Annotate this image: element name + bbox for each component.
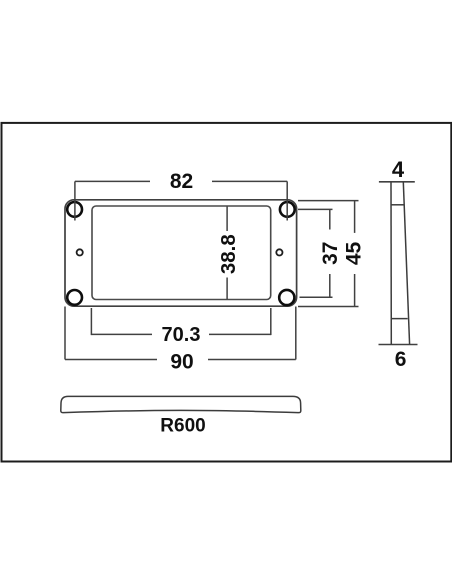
dimension 70.3: extension line right	[270, 308, 272, 335]
svg-text:70.3: 70.3	[162, 324, 201, 346]
dimension 82: extension line right	[286, 181, 288, 220]
screw hole top-left	[67, 202, 82, 217]
side view: bottom dimension line	[379, 344, 418, 346]
dimension 37: dim line bottom segment	[329, 274, 331, 297]
small pickup adjust hole left	[77, 249, 83, 255]
screw hole top-right	[280, 202, 295, 217]
dimension 37: dim line top segment	[329, 209, 331, 229]
svg-text:R600: R600	[160, 416, 205, 437]
dimension 38.8: dim line top segment	[226, 207, 228, 232]
dimension 45: dim line bottom segment	[354, 274, 356, 307]
dimension 82: dim line right segment	[212, 180, 287, 182]
inner opening rectangle	[92, 206, 271, 300]
svg-text:90: 90	[170, 350, 193, 373]
outer ring rounded rectangle	[65, 200, 297, 306]
dimension 90: extension line left	[64, 307, 66, 360]
dimension 90: dim line right segment	[208, 359, 296, 361]
dimension 90: extension line right	[295, 307, 297, 360]
dimension 38.8: dim line bottom segment	[226, 278, 228, 300]
dimension 70.3: extension line left	[90, 308, 92, 335]
dimension 70.3: dim line left segment	[91, 333, 152, 335]
svg-text:4: 4	[392, 157, 405, 182]
dimension 82: extension line left	[74, 181, 76, 220]
drawing frame border	[2, 123, 452, 462]
dimension 45: dim line top segment	[354, 201, 356, 233]
dimension 45: extension line bottom	[298, 306, 359, 308]
svg-text:45: 45	[343, 242, 366, 266]
dimension 45: extension line top	[298, 200, 359, 202]
svg-text:82: 82	[170, 170, 193, 193]
dimension 90: dim line left segment	[65, 359, 157, 361]
small pickup adjust hole right	[276, 249, 282, 255]
R600 curved base profile	[61, 396, 301, 412]
svg-text:38.8: 38.8	[217, 234, 240, 274]
screw hole bottom-right	[279, 290, 294, 305]
side view: right slanted edge	[403, 182, 409, 345]
side view: lower ledge line	[391, 318, 408, 320]
dimension 70.3: dim line right segment	[209, 333, 271, 335]
svg-text:6: 6	[395, 348, 407, 371]
svg-text:37: 37	[319, 242, 342, 265]
side view: top dimension line	[379, 181, 415, 183]
side view: left edge	[390, 182, 392, 345]
dimension 37: extension line top	[298, 208, 333, 210]
side view: upper ledge line	[391, 204, 404, 206]
dimension 82: dim line left segment	[75, 180, 150, 182]
dimension 37: extension line bottom	[300, 296, 333, 298]
screw hole bottom-left	[67, 290, 82, 305]
